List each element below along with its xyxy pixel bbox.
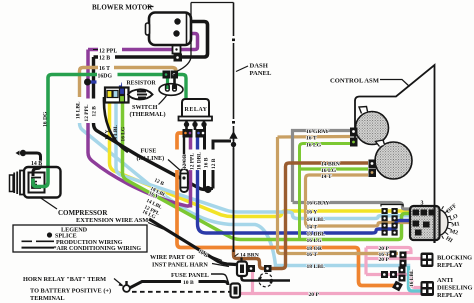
svg-text:TERMINAL: TERMINAL [30,295,65,302]
lower connector pairs on pink [381,271,388,278]
splice dot at black junction [204,186,211,193]
svg-text:18 LBL: 18 LBL [307,264,325,270]
wire 20 P pink lower loop to anti relay [366,275,421,288]
wire 18 LBL diagonal from left bundle [80,119,421,291]
knob1 connector [350,128,358,137]
svg-text:12 PPL: 12 PPL [190,153,196,170]
wire 16 T tan drop at left [80,68,100,98]
terminal dot 14 B [20,150,26,156]
wire 16 GRAY lower horizontal [293,203,412,210]
svg-text:16 GRAY: 16 GRAY [306,129,329,135]
knob2 connector [369,160,377,169]
wire 18 OR orange from relay down and right to bottom right [177,133,394,286]
anti dieseling relay icon [421,281,435,296]
svg-text:FUSE: FUSE [141,148,157,155]
svg-text:SWITCH: SWITCH [132,104,158,111]
svg-text:14 B: 14 B [31,161,42,167]
wire 14 BRN to knob2 connector and down to fuse panel [234,163,369,269]
wire 16 B black vertical from relay pin [203,125,206,189]
battery feed thick black wire 10 B [130,282,229,289]
svg-text:18 LBL: 18 LBL [76,101,82,119]
wire 20 P pink top loop to blocking relay [366,248,421,259]
svg-text:TO BATTERY POSITIVE (+): TO BATTERY POSITIVE (+) [30,288,111,295]
wire 16 T lower horizontal [278,137,399,254]
wire 16 T tan from blower area [99,68,176,73]
svg-text:DIESELING: DIESELING [437,285,473,292]
svg-text:INST PANEL HARN: INST PANEL HARN [152,262,208,269]
blower housing thin outline [177,3,234,72]
fuse panel connector box [237,262,247,277]
svg-text:DASH: DASH [250,63,269,70]
dashed circle [259,273,273,287]
svg-text:ANTI: ANTI [437,277,453,284]
connector pair on 16 T near relays [390,251,397,258]
wire 14 B compressor feed [26,153,41,180]
svg-text:FUSE PANEL: FUSE PANEL [171,272,209,279]
wire 14 T lower horizontal [306,223,412,227]
svg-text:20 P: 20 P [309,292,320,298]
svg-text:BLOWER MOTOR: BLOWER MOTOR [92,4,153,12]
svg-text:16 LBL: 16 LBL [409,269,415,287]
wire black from resistor connector curving to 12 B diagonal [104,97,128,152]
svg-text:EXTENSION WIRE ASM: EXTENSION WIRE ASM [76,217,148,224]
compressor body [24,167,61,198]
splice dot on purple [84,79,91,86]
relay pins [187,121,205,131]
svg-text:WIRE PART OF: WIRE PART OF [150,254,195,261]
svg-text:12 B: 12 B [92,106,98,117]
wire 12 B diagonal from blower to fuse junction [94,57,206,190]
connector columns on bundle [382,208,398,236]
fuse panel battery box [231,284,241,298]
resistor connector block [105,88,129,103]
wire 14 B tail into compressor [33,158,41,176]
svg-text:16 Y: 16 Y [105,129,111,140]
svg-text:(IN LINE): (IN LINE) [137,155,165,162]
svg-text:12 PPL: 12 PPL [99,49,117,55]
svg-text:20 P: 20 P [379,257,390,263]
svg-text:16 Y: 16 Y [307,210,318,216]
svg-text:18 DBL: 18 DBL [307,232,326,238]
label 12 PPL [98,47,122,53]
thermal switch oval [159,84,183,96]
fuse in line stub and capsule [183,138,185,171]
control knob 1 [356,112,389,145]
svg-text:14 BRN: 14 BRN [240,253,259,259]
compressor clutch plates [20,171,24,195]
wire 16 Y diagonal from resistor [110,102,412,217]
blocking relay icon [421,253,434,268]
anti relay pin squares [399,267,406,274]
svg-text:16 LG: 16 LG [307,238,323,244]
resistor element oval [128,89,153,99]
svg-text:(THERMAL): (THERMAL) [130,111,166,118]
blocking relay pin squares [400,252,407,259]
svg-text:SPLICE: SPLICE [55,234,77,240]
svg-text:PRODUCTION WIRING: PRODUCTION WIRING [56,240,123,246]
svg-text:CONTROL ASM: CONTROL ASM [330,78,380,85]
relay box [182,99,209,117]
svg-text:HORN RELAY "BAT" TERM: HORN RELAY "BAT" TERM [23,276,106,283]
connector square on 12 B [174,54,183,62]
svg-text:RELAY: RELAY [185,107,208,113]
svg-text:16DG: 16DG [98,74,113,80]
svg-text:PANEL: PANEL [250,70,272,77]
svg-text:REPLAY: REPLAY [437,292,463,299]
dash panel line [233,3,235,253]
wire 16 LG upper to control connector [300,144,351,240]
pointer fuse in line [168,160,181,172]
svg-text:16 DG: 16 DG [43,111,49,127]
wire 16 T short to connector near relays [355,252,390,255]
svg-text:16 T: 16 T [307,252,318,258]
black run from fuse panel through dashed circle [242,276,291,281]
svg-text:BLOCKING: BLOCKING [437,255,472,262]
svg-text:14 BRN: 14 BRN [321,162,340,168]
production dashed wire from battery node to fuse panel [132,291,230,293]
brown connector pairs [248,265,256,272]
svg-text:REPLAY: REPLAY [437,262,463,269]
wire 16 GRAY upper to control connector [293,131,351,203]
svg-text:12 B: 12 B [211,158,217,169]
wire 16 DG green right segment to relay [177,75,186,100]
svg-text:18 DBL: 18 DBL [197,152,203,170]
wire 16 T upper to control connector [278,135,351,139]
arrow on dash line [231,133,237,142]
svg-text:12 B: 12 B [99,56,110,62]
wire 20 P pink bottom run [241,270,421,294]
svg-text:COMPRESSOR: COMPRESSOR [58,209,108,217]
svg-text:14 LBL: 14 LBL [307,217,325,223]
connector square on 12 PPL [173,46,181,54]
svg-text:10 B: 10 B [183,280,194,286]
blower motor thick black wire 12 B loop [94,22,208,58]
bracket and 3 [381,205,403,207]
wire 12 B black vertical from dash panel junction [205,141,232,189]
svg-text:12 PPL: 12 PPL [84,104,90,121]
blower terminals [174,18,180,24]
blower motor purple wire 12 PPL loop [88,34,198,50]
svg-text:14 T: 14 T [321,174,332,180]
fan switch body [439,210,448,236]
blower motor body [149,13,191,46]
svg-text:16 LG: 16 LG [306,143,322,149]
svg-text:16 LG: 16 LG [121,126,127,141]
wire 18 DBL from relay to lower run [198,137,412,233]
svg-text:RESISTOR: RESISTOR [127,81,157,87]
wire 16 DG green horizontal and down to compressor [33,75,164,187]
wire 16 LBL teal vertical to anti dieseling relay [409,266,421,291]
svg-text:12 OR: 12 OR [182,154,188,169]
wire 14 LBL diagonal from resistor [116,102,411,219]
wire 16 LG diagonal from resistor to bottom run [123,102,412,240]
wire 16 DG tail into compressor [33,168,48,187]
wire 20 P pink left vertical and mid horizontal [366,248,404,275]
control asm outline [355,65,435,243]
svg-text:16 B: 16 B [204,157,210,168]
wire 12 PPL vertical from relay [189,137,193,208]
pointer to thermal switch [159,96,167,105]
black pin into thermal switch [173,74,176,89]
svg-text:16 GRAY: 16 GRAY [307,201,330,207]
legend box [13,225,147,252]
wire 12DBL from splice to resistor connector [90,82,121,89]
control knob 2 [375,142,412,179]
dash panel line lower segment [233,148,235,252]
wire green pin into thermal switch [166,77,169,89]
pointer to compressor [40,198,57,210]
svg-text:14 T: 14 T [307,225,318,231]
svg-text:16 T: 16 T [99,66,110,72]
svg-text:16 T: 16 T [306,136,317,142]
svg-text:14 LBL: 14 LBL [113,125,119,143]
relay connector blocks [183,129,193,138]
black 10 B harness diagonal to fuse panel [149,219,236,265]
connector pair on 16 DG [163,71,171,79]
wire 12 PPL diagonal from blower [88,50,191,207]
wire 16 LG middle branch to knob2 connector [300,167,369,170]
angled connector on orange end [392,281,403,292]
svg-text:M1: M1 [451,221,460,228]
wire 14 T upper to knob2 connector [306,175,369,226]
svg-text:LEGEND: LEGEND [61,227,88,234]
svg-text:*AIR CONDITIONING WIRING: *AIR CONDITIONING WIRING [54,246,142,252]
